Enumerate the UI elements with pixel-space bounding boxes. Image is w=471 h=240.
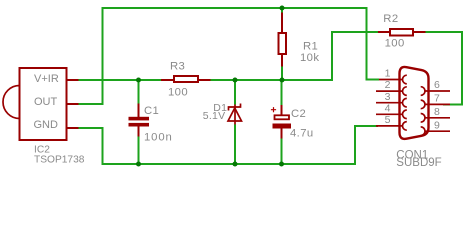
svg-text:C1: C1 <box>144 105 159 117</box>
wire R2 right to CON1 pin 7 <box>426 32 463 105</box>
label D1 value 5.1V <box>203 102 228 122</box>
svg-text:SUBD9F: SUBD9F <box>396 157 441 169</box>
junction R1 bottom <box>280 78 285 83</box>
svg-text:5: 5 <box>385 114 391 126</box>
zener diode D1 <box>228 104 242 125</box>
capacitor C2 polarized <box>271 105 291 139</box>
label R1 value 10k <box>300 41 319 65</box>
label R2 value 100 <box>383 13 404 49</box>
svg-text:V+IR: V+IR <box>34 73 59 85</box>
svg-text:7: 7 <box>434 93 440 105</box>
svg-text:2: 2 <box>385 79 391 91</box>
svg-text:6: 6 <box>434 79 440 91</box>
svg-text:R3: R3 <box>170 60 185 72</box>
CON1 pins 1-5 lines <box>376 80 403 126</box>
CON1 pins 6-9 female contacts <box>421 87 425 136</box>
connector CON1 SUBD9F body <box>400 67 429 139</box>
svg-text:R1: R1 <box>303 41 318 53</box>
CON1 pin numbers 6-9 <box>434 79 440 131</box>
wire IC2 GND pin to bottom rail to CON1 pin 5 <box>79 126 379 164</box>
label C2 value 4.7u <box>290 108 314 140</box>
CON1 pins 6-9 lines <box>425 91 450 131</box>
wire R1 riser <box>281 8 283 80</box>
wire R3 to R1 bottom node to R2 left <box>211 32 379 80</box>
junction D1 top <box>233 78 238 83</box>
svg-text:9: 9 <box>434 119 440 131</box>
wire D1 riser <box>234 80 236 164</box>
resistor R1 <box>279 13 287 67</box>
svg-text:OUT: OUT <box>34 96 58 108</box>
svg-text:100: 100 <box>385 38 405 50</box>
capacitor C1 <box>129 104 150 137</box>
wire C1 riser <box>138 80 140 164</box>
svg-text:GND: GND <box>34 119 59 131</box>
svg-text:1: 1 <box>385 68 391 80</box>
svg-text:TSOP1738: TSOP1738 <box>34 155 85 166</box>
svg-text:8: 8 <box>434 106 440 118</box>
wire C2 riser <box>281 80 283 164</box>
label R3 value 100 <box>168 60 188 98</box>
junction C1 top <box>136 78 141 83</box>
label C1 value 100n <box>144 105 173 144</box>
resistor R2 <box>378 29 426 36</box>
label CON1 SUBD9F <box>396 149 441 169</box>
svg-text:IC2: IC2 <box>34 144 50 155</box>
wire IC2 V+IR pin to R3 (V+ node) <box>79 79 162 81</box>
junction C2 bottom <box>279 162 284 167</box>
junction R1 top rail <box>280 6 285 11</box>
svg-text:R2: R2 <box>383 13 398 25</box>
junction C1 bottom <box>136 162 141 167</box>
svg-text:3: 3 <box>385 91 391 103</box>
label IC2 TSOP1738 <box>34 144 85 165</box>
svg-text:5.1V: 5.1V <box>203 110 226 122</box>
svg-text:100: 100 <box>168 87 188 99</box>
CON1 pins 1-5 female contacts <box>402 75 406 130</box>
wire IC2 OUT pin to top rail to CON1 pin 1 <box>79 8 380 104</box>
svg-text:C2: C2 <box>291 108 306 120</box>
svg-text:4: 4 <box>385 102 391 114</box>
CON1 pin numbers 1-5 <box>385 68 391 126</box>
resistor R3 <box>161 76 211 82</box>
IC2 pin name labels <box>34 73 59 131</box>
svg-text:10k: 10k <box>300 52 319 64</box>
wire overlay on CON1 pin 1 <box>367 79 380 81</box>
junction D1 bottom <box>233 162 238 167</box>
IC2 TSOP1738 receiver body <box>3 68 79 140</box>
svg-text:4.7u: 4.7u <box>290 128 314 140</box>
svg-text:100n: 100n <box>144 132 173 144</box>
